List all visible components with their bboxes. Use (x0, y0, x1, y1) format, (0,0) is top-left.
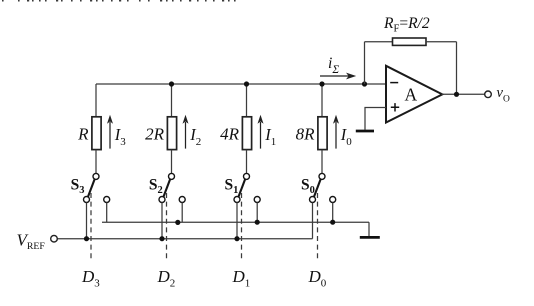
switch S2 (159, 173, 185, 202)
resistor R (92, 117, 101, 150)
node: summing node dot (feedback tap) (362, 81, 367, 86)
wire: S0 right contact stem to ground bus (332, 203, 334, 223)
cropped text artifact along top edge (2, 0, 236, 2)
node D1 dashed line (241, 193, 243, 261)
node: dot S2 stem / ground bus (175, 220, 180, 225)
svg-text:R: R (77, 124, 89, 143)
svg-text:S0: S0 (301, 176, 315, 196)
resistor 2R (167, 117, 176, 150)
wire: 2R column from bus to resistor 2R (171, 84, 173, 116)
svg-text:D3: D3 (81, 267, 100, 290)
current arrow I0 (333, 115, 339, 149)
svg-text:4R: 4R (220, 124, 240, 143)
svg-text:D1: D1 (232, 267, 251, 290)
svg-text:D0: D0 (308, 267, 327, 290)
svg-text:S1: S1 (225, 176, 239, 196)
svg-text:I1: I1 (264, 125, 276, 148)
switch S0 (310, 173, 336, 202)
wire: R column from bus to resistor R (95, 84, 97, 116)
wire: S1 left contact to VREF bus (236, 203, 238, 239)
svg-text:I0: I0 (340, 125, 353, 148)
node: dot S1 stem / ground bus (255, 220, 260, 225)
node: junction dot bus/8R (319, 81, 324, 86)
op-amp U1 (A) (386, 66, 442, 123)
wire: S3 left contact to VREF bus (86, 203, 88, 239)
ground symbol (bus) (360, 236, 380, 239)
svg-text:8R: 8R (296, 124, 316, 143)
wire: S2 right contact stem to ground bus (181, 203, 183, 223)
svg-text:S2: S2 (149, 176, 163, 196)
wire: op-amp output (442, 93, 485, 95)
wire: feedback left vertical (364, 42, 366, 84)
svg-text:2R: 2R (145, 124, 165, 143)
node: dot S3 / VREF bus (84, 236, 89, 241)
wire: S0 left contact to VREF bus end (312, 203, 314, 239)
wire: S2 left contact to VREF bus (161, 203, 163, 239)
svg-text:D2: D2 (157, 267, 176, 290)
wire: summing bus (inverting input line) (96, 83, 386, 85)
wire: feedback top right (426, 41, 457, 43)
wire: 8R column from bus to resistor 8R (321, 84, 323, 116)
current arrow I3 (107, 115, 113, 149)
node: dot S1 / VREF bus (234, 236, 239, 241)
op-amp minus sign (390, 82, 398, 84)
terminal VREF (51, 235, 58, 242)
svg-text:I3: I3 (114, 125, 127, 148)
node: dot S2 / VREF bus (159, 236, 164, 241)
wire: 2R to switch S2 pole (171, 150, 173, 174)
resistor 4R (242, 117, 251, 150)
switch S1 (234, 173, 260, 202)
wire: VREF bus (57, 238, 312, 240)
wire: 4R column from bus to resistor 4R (246, 84, 248, 116)
current arrow i-sigma (320, 73, 356, 80)
wire: feedback top left (365, 41, 393, 43)
svg-text:S3: S3 (71, 176, 85, 196)
svg-text:I2: I2 (189, 125, 201, 148)
wire: 4R to switch S1 pole (246, 150, 248, 174)
wire: 8R to switch S0 pole (321, 150, 323, 174)
wire: R to switch S3 pole (95, 150, 97, 174)
ground symbol (op-amp + input) (356, 130, 374, 133)
node: junction dot bus/2R (169, 81, 174, 86)
wire: feedback right vertical (456, 42, 458, 95)
svg-text:VREF: VREF (17, 230, 46, 251)
current arrow I2 (183, 115, 189, 149)
svg-text:vO: vO (497, 85, 510, 105)
node D3 dashed line (90, 193, 92, 261)
node: output/feedback dot (454, 92, 459, 97)
resistor RF (393, 38, 427, 45)
node: junction dot bus/4R (244, 81, 249, 86)
svg-text:A: A (405, 85, 418, 105)
svg-text:RF=R/2: RF=R/2 (383, 15, 430, 35)
wire: S1 right contact stem to ground bus (256, 203, 258, 223)
wire: ground bus (102, 221, 369, 223)
node D2 dashed line (166, 193, 168, 261)
svg-text:iΣ: iΣ (328, 55, 339, 76)
node: dot S0 stem / ground bus (330, 220, 335, 225)
node D0 dashed line (317, 193, 319, 261)
op-amp plus sign (391, 103, 399, 111)
wire: ground bus drop (368, 222, 370, 236)
resistor 8R (318, 117, 327, 150)
wire: S3 right contact stem to ground bus (106, 203, 108, 223)
current arrow I1 (258, 115, 264, 149)
switch S3 (84, 173, 110, 202)
terminal vO (485, 91, 492, 98)
wire: non-inverting input to ground (365, 108, 386, 130)
